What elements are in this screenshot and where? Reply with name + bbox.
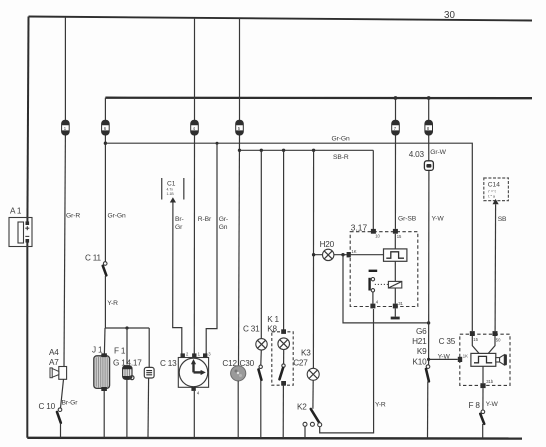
svg-text:4.7x: 4.7x xyxy=(167,188,174,192)
connector C1 xyxy=(162,178,184,203)
flasher unit 3.17 dashed box xyxy=(350,223,418,307)
pin 1K xyxy=(347,249,384,258)
pin 31 xyxy=(393,288,404,308)
pin 15 xyxy=(393,229,402,239)
wire Gr-Gn vertical from second rail xyxy=(104,98,106,262)
horn relay C35 dashed box xyxy=(439,334,510,385)
battery feed left border wire xyxy=(27,17,28,438)
switch K2 xyxy=(297,403,322,438)
label Gr-R xyxy=(66,213,80,220)
svg-text:Gr-SB: Gr-SB xyxy=(398,216,417,223)
wire Br-Gr from C1 to clock pin 2 xyxy=(173,203,184,354)
svg-text:50: 50 xyxy=(496,338,501,343)
wire Y-W to horn relay xyxy=(427,353,458,361)
svg-text:1-1B: 1-1B xyxy=(167,192,175,196)
connector 6 capsule xyxy=(102,120,110,135)
wire R-Br vertical xyxy=(194,18,212,354)
pin 1K C35 xyxy=(458,354,468,362)
ground at 3.17 xyxy=(391,308,400,319)
svg-text:A 1: A 1 xyxy=(10,207,22,216)
lamp K3 C27 xyxy=(293,349,319,409)
svg-text:31: 31 xyxy=(398,301,403,306)
switch F8 xyxy=(469,388,499,438)
node Gr-Gn junction xyxy=(104,142,107,145)
wire Gr-Gn horizontal line xyxy=(105,136,472,332)
bus rail second (feed) xyxy=(105,97,532,100)
switch C10 xyxy=(39,400,79,438)
wire feed to C12 from rail 30 xyxy=(239,18,240,366)
svg-text:K3: K3 xyxy=(301,349,311,358)
svg-text:Br-Gr: Br-Gr xyxy=(62,400,79,407)
connector 5 capsule xyxy=(236,120,244,135)
fuse 4.17 xyxy=(127,358,155,438)
svg-text:4.17: 4.17 xyxy=(127,358,143,367)
pin 4 xyxy=(370,299,378,308)
svg-text:F 1: F 1 xyxy=(114,346,126,355)
connector 4 capsule xyxy=(191,120,199,135)
wire Gr-R vertical from rail 30 xyxy=(64,17,65,367)
wire Y-R split xyxy=(104,326,149,367)
svg-text:C 11: C 11 xyxy=(85,254,102,263)
wire horn to C10 xyxy=(61,379,64,408)
svg-text:4.03: 4.03 xyxy=(409,150,425,159)
connector 7 capsule xyxy=(392,120,400,135)
svg-text:Gr-R: Gr-R xyxy=(66,213,80,220)
bus 30 top rail xyxy=(29,10,533,21)
svg-text:Gr-W: Gr-W xyxy=(430,149,446,156)
svg-text:Y-W: Y-W xyxy=(486,401,499,408)
svg-text:Y-W: Y-W xyxy=(432,216,445,223)
contact switch inside 3.17 xyxy=(369,271,378,304)
svg-text:SB: SB xyxy=(498,216,507,223)
lamp C31 xyxy=(243,325,267,350)
switch C11 xyxy=(85,254,118,329)
clock C13 xyxy=(160,351,211,438)
pin 15 C35 xyxy=(470,331,479,342)
svg-text:K2: K2 xyxy=(297,403,307,412)
svg-text:3.17: 3.17 xyxy=(351,223,368,233)
fuse F1 G1 xyxy=(113,346,134,438)
svg-text:Gr-Gn: Gr-Gn xyxy=(108,213,126,220)
wire C31 branch xyxy=(260,149,263,339)
relay pulse unit 3.17 xyxy=(384,234,407,262)
svg-text:K 1: K 1 xyxy=(267,315,279,324)
svg-text:Y-R: Y-R xyxy=(375,402,386,409)
svg-text:1K: 1K xyxy=(463,354,468,359)
wire Gr-SB vertical from second rail xyxy=(394,96,417,229)
svg-text:31b: 31b xyxy=(486,379,494,384)
svg-text:Y-R: Y-R xyxy=(107,300,118,307)
horn A4 A7 xyxy=(49,348,67,379)
relay unit C35 xyxy=(471,336,496,366)
wire K1 K8 branch xyxy=(282,149,285,330)
wire Y-W vertical from second rail xyxy=(427,96,445,365)
svg-text:C 31: C 31 xyxy=(243,325,260,334)
svg-text:1K: 1K xyxy=(351,249,356,254)
svg-text:Gr: Gr xyxy=(175,224,183,231)
svg-text:Gr-: Gr- xyxy=(219,216,228,223)
fuse 4.03 xyxy=(409,149,447,171)
svg-text:C30: C30 xyxy=(240,359,255,368)
pin 50 C35 xyxy=(493,331,502,342)
battery A1 xyxy=(9,207,32,247)
svg-text:K9: K9 xyxy=(417,347,427,356)
svg-text:15: 15 xyxy=(397,234,402,239)
svg-text:C 35: C 35 xyxy=(439,337,456,346)
pin 10 xyxy=(371,150,381,238)
svg-text:C 13: C 13 xyxy=(160,359,177,368)
svg-text:30: 30 xyxy=(444,10,455,21)
wire SB-R horizontal xyxy=(240,150,374,161)
svg-text:Br-: Br- xyxy=(175,216,184,223)
svg-text:Gr-Gn: Gr-Gn xyxy=(332,136,350,143)
switch C30 xyxy=(240,350,263,438)
ground bottom rail xyxy=(27,437,522,440)
svg-text:SB-R: SB-R xyxy=(333,154,349,161)
connector 1 capsule xyxy=(62,120,70,135)
horn symbol in C35 xyxy=(496,354,507,365)
svg-text:C27: C27 xyxy=(293,358,308,367)
svg-text:C 10: C 10 xyxy=(39,402,56,411)
wire Y-R from K2 to flasher 3.17 xyxy=(320,309,386,433)
wire SB from C14 to horn relay xyxy=(495,204,507,331)
pin 31b C35 xyxy=(480,366,493,388)
relay J1 ballast xyxy=(92,346,110,438)
svg-text:10: 10 xyxy=(375,234,380,239)
lamp H20 xyxy=(312,240,347,260)
svg-text:A4: A4 xyxy=(49,348,59,357)
labels G6 H21 K9 K10 xyxy=(412,327,427,366)
wire H20 link to K10 node xyxy=(341,253,430,325)
switch K10 xyxy=(426,365,430,438)
node SB-R start xyxy=(238,149,241,152)
svg-text:R-Br: R-Br xyxy=(198,216,212,223)
svg-text:15: 15 xyxy=(473,337,478,342)
label Gr-Gn xyxy=(108,213,126,220)
svg-text:r' =' t: r' =' t xyxy=(488,189,495,193)
svg-text:H20: H20 xyxy=(320,240,335,249)
motor C12 xyxy=(222,359,245,438)
svg-text:F 8: F 8 xyxy=(469,401,481,410)
svg-text:Gn: Gn xyxy=(219,224,228,231)
wire K3 C27 / K2 branch xyxy=(312,149,315,369)
relay coil 3.17 xyxy=(375,261,402,288)
svg-text:C1: C1 xyxy=(167,181,176,188)
flasher pilot K1 K8 box xyxy=(267,315,293,438)
svg-text:t.'" a: t.'" a xyxy=(488,195,495,199)
svg-text:A7: A7 xyxy=(49,358,59,367)
svg-text:H21: H21 xyxy=(412,337,427,346)
svg-text:C14: C14 xyxy=(488,182,500,189)
svg-text:G6: G6 xyxy=(416,327,427,336)
svg-text:J 1: J 1 xyxy=(92,346,103,355)
wire Gr-Gn drop to clock pin 3 xyxy=(206,142,228,354)
svg-text:K10: K10 xyxy=(413,357,428,366)
connector C14 xyxy=(484,178,509,204)
connector 8 capsule xyxy=(425,120,433,135)
